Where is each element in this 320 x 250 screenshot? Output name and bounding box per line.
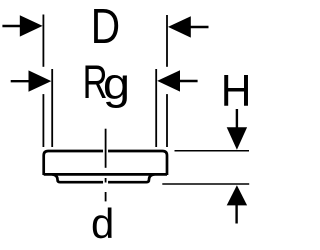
node: center line white casing over part edges xyxy=(103,129,108,168)
wire: dimension H down tail xyxy=(236,109,238,128)
arrowhead Rg left xyxy=(29,70,52,91)
arrowhead H down xyxy=(227,127,247,150)
wire: dimension D right tail xyxy=(190,26,209,28)
wire: dimension Rg right tail xyxy=(179,80,198,82)
wire: dimension Rg left tail xyxy=(11,80,30,82)
part body bottom edge xyxy=(44,173,167,176)
part body outline (flanged bushing cross-section) xyxy=(44,151,167,175)
arrowhead H up xyxy=(227,185,247,205)
node: extension line H top xyxy=(175,150,250,152)
svg-text:g: g xyxy=(103,59,130,108)
arrowhead D right xyxy=(168,16,191,37)
node: extension line D right (upper) xyxy=(166,15,168,67)
node: extension line D right (lower) xyxy=(166,94,168,147)
svg-text:H: H xyxy=(221,67,250,116)
node: extension line D left (upper) xyxy=(42,15,44,67)
svg-text:d: d xyxy=(91,200,114,247)
node: center line (dash-dot) xyxy=(105,129,107,168)
wire: dimension H up tail xyxy=(235,205,237,224)
node: extension line D left (lower) xyxy=(42,94,44,147)
part bottom flange outline xyxy=(52,174,155,182)
svg-text:D: D xyxy=(91,0,120,54)
node: extension line Rg right xyxy=(155,69,157,147)
arrowhead Rg right xyxy=(157,70,180,91)
node: extension line Rg left xyxy=(51,69,53,147)
arrowhead D left xyxy=(20,15,43,36)
wire: dimension D left tail xyxy=(2,25,21,27)
node: extension line H bottom xyxy=(162,183,249,185)
